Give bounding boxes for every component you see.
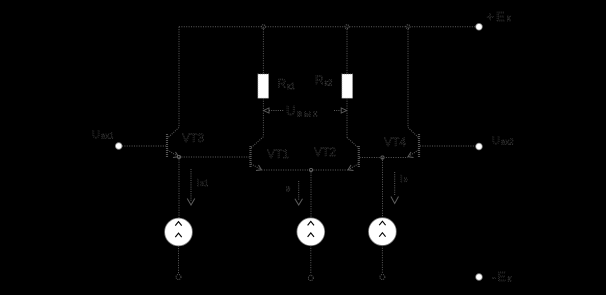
transistor VT2 emitter diagonal with arrow xyxy=(348,164,359,170)
label VT1 xyxy=(267,147,289,161)
svg-text:E: E xyxy=(496,9,505,24)
wire emitter VT3 down to current source I1 xyxy=(178,157,180,218)
label -Ek xyxy=(492,270,512,284)
svg-text:к2: к2 xyxy=(325,79,334,88)
label Ie1 xyxy=(197,178,210,189)
terminal Uvx2 white dot xyxy=(476,143,483,150)
transistor VT3 emitter diagonal with arrow xyxy=(168,150,179,157)
svg-text:+: + xyxy=(487,9,495,24)
current source I1 circle xyxy=(165,218,193,246)
svg-text:вых: вых xyxy=(297,109,320,120)
label Uvx1 xyxy=(92,129,114,141)
transistor VT3 base bar xyxy=(166,134,168,157)
svg-text:I: I xyxy=(400,174,403,185)
node junction rail/Rk1 xyxy=(261,25,265,29)
resistor Rk1 xyxy=(258,74,269,98)
current arrow Ie3 xyxy=(394,172,396,196)
svg-text:э: э xyxy=(286,184,291,194)
label Ie2 xyxy=(286,184,291,194)
wire Rk1 bottom to VT1 collector xyxy=(262,98,264,136)
wire VT1 emitter to common node xyxy=(262,169,312,171)
wire VT2 emitter to common node xyxy=(311,169,348,171)
node junction VT4 emitter / current source I3 xyxy=(381,156,384,159)
wire VT4 collector vertical xyxy=(407,27,409,128)
current source I2 circle xyxy=(297,218,325,246)
svg-text:VT2: VT2 xyxy=(314,145,336,159)
current arrow Ie2 xyxy=(298,181,300,200)
svg-text:вх1: вх1 xyxy=(101,132,114,141)
svg-text:VT1: VT1 xyxy=(267,147,289,161)
wire common emitters down to current source I2 xyxy=(310,170,312,218)
transistor VT2 base bar xyxy=(358,146,360,167)
label Uvyh xyxy=(286,103,320,120)
svg-text:вх2: вх2 xyxy=(501,138,514,147)
svg-text:э: э xyxy=(404,175,408,184)
svg-text:к: к xyxy=(507,13,511,23)
svg-text:R: R xyxy=(315,73,324,87)
node VT3 emitter junction xyxy=(177,155,180,158)
svg-text:э1: э1 xyxy=(200,179,209,188)
terminal Uvx1 white dot xyxy=(115,143,122,150)
node I2 bottom terminal ring xyxy=(308,276,313,281)
label Uvx2 xyxy=(492,135,514,147)
node junction rail/Rk2 xyxy=(345,25,349,29)
current source I2 arrowheads xyxy=(308,221,314,225)
wire VT3 emitter to VT1 base xyxy=(179,156,250,158)
wire Rk1 top xyxy=(262,27,264,74)
svg-text:I: I xyxy=(197,178,200,189)
label VT4 xyxy=(384,135,406,149)
wire VT3 base from input xyxy=(122,145,166,147)
svg-text:U: U xyxy=(286,103,295,118)
transistor VT2 collector diagonal xyxy=(347,138,359,148)
terminal +Ek white dot xyxy=(476,24,483,31)
current source I3 arrowheads xyxy=(379,221,385,225)
svg-text:VT4: VT4 xyxy=(384,135,406,149)
label VT3 xyxy=(182,131,204,145)
wire Rk2 top xyxy=(346,27,348,74)
resistor Rk2 xyxy=(342,74,353,98)
label Ie3 xyxy=(400,174,408,185)
svg-text:R: R xyxy=(278,77,287,91)
wire down to current source I3 xyxy=(382,158,384,219)
svg-text:U: U xyxy=(492,135,500,147)
terminal -Ek white dot xyxy=(476,274,483,281)
svg-text:к1: к1 xyxy=(287,82,296,91)
current source I3 circle xyxy=(369,218,397,246)
wire VT2 base to VT4 emitter node xyxy=(360,157,409,159)
svg-text:U: U xyxy=(92,129,100,141)
node I1 bottom terminal ring xyxy=(176,275,181,280)
svg-text:VT3: VT3 xyxy=(182,131,204,145)
wire Rk2 bottom to VT2 collector xyxy=(346,98,348,137)
label VT2 xyxy=(314,145,336,159)
node I3 bottom terminal ring xyxy=(380,275,385,280)
transistor VT3 collector diagonal xyxy=(168,128,180,139)
label +Ek xyxy=(487,9,511,24)
node junction rail/VT4 collector xyxy=(406,25,410,29)
svg-text:к: к xyxy=(508,274,512,284)
transistor VT1 collector diagonal xyxy=(251,137,263,148)
label Rk2 xyxy=(315,73,333,88)
transistor VT4 collector diagonal xyxy=(408,128,419,139)
wire current source I1 to -Ek xyxy=(178,246,180,274)
transistor VT1 base bar xyxy=(249,146,251,167)
label Rk1 xyxy=(278,77,296,92)
current source I1 arrowheads xyxy=(175,222,181,226)
wire current source I3 to -Ek xyxy=(381,245,383,273)
wire VT3 collector vertical xyxy=(178,27,180,128)
node common emitter junction VT1/VT2 xyxy=(309,168,312,171)
transistor VT1 emitter diagonal with arrow xyxy=(251,164,262,170)
current arrow Ie1 xyxy=(190,169,192,201)
transistor VT4 base bar xyxy=(418,134,420,157)
svg-text:-: - xyxy=(492,270,496,284)
Uvyh arrow left segment xyxy=(269,110,284,112)
wire VT4 base to input Uvx2 xyxy=(420,145,476,147)
wire current source I2 to -Ek xyxy=(310,246,312,275)
Uvyh arrow right segment xyxy=(334,110,341,112)
wire top +Ek rail xyxy=(179,26,476,28)
transistor VT4 emitter diagonal with arrow xyxy=(408,150,419,157)
svg-text:E: E xyxy=(498,270,506,284)
